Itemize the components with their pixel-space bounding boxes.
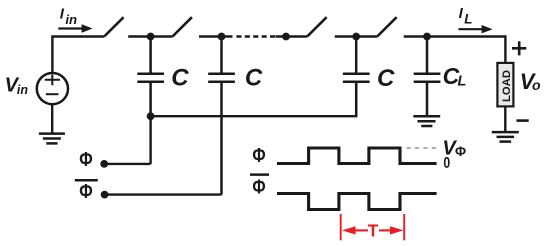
label V-phi (442, 137, 466, 159)
svg-text:Φ: Φ (455, 144, 466, 159)
node dot n4 (352, 33, 360, 41)
svg-text:I: I (60, 5, 65, 22)
label Vo (520, 69, 541, 94)
wire phi (104, 163, 150, 165)
wire segment C2 (276, 35, 308, 37)
node dot n5 (423, 33, 431, 41)
wire segment D (335, 35, 377, 37)
ground below CL (413, 116, 440, 126)
period arrow left (342, 226, 368, 234)
ground below load (492, 132, 519, 142)
terminal dot phi (100, 160, 108, 168)
svg-text:in: in (65, 12, 77, 27)
switch S3 (307, 17, 326, 36)
bottom rail wire (151, 83, 357, 164)
dashed level line V-phi (407, 147, 441, 149)
svg-text:0: 0 (443, 155, 450, 172)
wire phi-bar (105, 193, 222, 195)
svg-text:L: L (464, 12, 472, 27)
svg-text:C: C (245, 65, 263, 92)
node dot n3 (282, 33, 290, 41)
capacitor CL (414, 37, 441, 117)
wire segment C (199, 35, 233, 37)
terminal dot phi-bar (101, 191, 109, 199)
svg-text:o: o (532, 77, 541, 93)
period marker line left (340, 214, 342, 240)
label Vin (5, 74, 29, 97)
current arrow IL (459, 25, 493, 33)
node dot n2 (218, 33, 226, 41)
svg-text:T: T (368, 221, 379, 241)
minus sign output (517, 119, 529, 122)
switch S1 (104, 17, 123, 36)
svg-text:C: C (377, 65, 395, 92)
svg-text:Φ: Φ (79, 148, 93, 171)
period arrow right (379, 226, 404, 234)
capacitor C3 (343, 37, 370, 117)
svg-text:in: in (17, 83, 28, 97)
capacitor C1 (137, 37, 164, 117)
switch S4 (377, 17, 396, 36)
svg-text:L: L (458, 74, 467, 90)
wire segment B (128, 35, 172, 37)
svg-text:LOAD: LOAD (501, 70, 513, 102)
label CL (443, 63, 467, 90)
svg-text:Φ: Φ (252, 144, 265, 167)
junction dot bottom rail (147, 112, 155, 120)
label IL (459, 5, 473, 27)
dashed wire (omitted stages) (236, 35, 275, 37)
ground below Vin (39, 134, 65, 144)
label Iin (60, 5, 77, 26)
plus sign output (512, 41, 526, 55)
node dot n1 (147, 33, 155, 41)
svg-text:I: I (459, 5, 464, 22)
capacitor C2 (208, 37, 235, 195)
wire segment E to load (404, 37, 506, 63)
label phi-bar (75, 180, 98, 203)
wire source bottom (51, 104, 53, 133)
svg-text:Φ: Φ (79, 180, 93, 203)
switch S2 (173, 17, 192, 36)
waveform phi-bar (277, 194, 437, 210)
period marker line right (403, 214, 405, 240)
label phi-bar waveform (250, 175, 269, 199)
waveform phi (277, 148, 437, 164)
wire source top riser (52, 37, 104, 74)
current arrow Iin (58, 24, 92, 32)
svg-text:C: C (171, 65, 189, 92)
wire load to ground (504, 107, 506, 132)
svg-text:Φ: Φ (252, 175, 265, 198)
load box (497, 63, 513, 107)
voltage source V1 (Vin) (37, 73, 68, 104)
